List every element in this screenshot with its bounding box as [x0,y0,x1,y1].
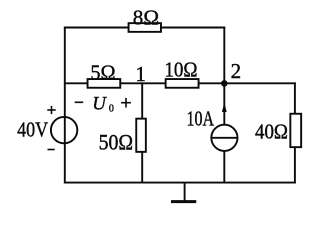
svg-text:1: 1 [135,62,146,86]
svg-text:U: U [92,94,107,114]
svg-text:0: 0 [109,104,114,115]
resistor R 5ohm [88,79,121,88]
svg-text:40V: 40V [17,117,48,141]
current source arrow head [222,102,227,112]
svg-text:2: 2 [231,59,242,83]
svg-text:10Ω: 10Ω [164,57,197,81]
svg-text:40Ω: 40Ω [255,120,288,144]
wire top horizontal [64,27,225,29]
voltage source V1 40V circle [51,117,77,143]
wire right vertical [294,82,296,183]
node 2 junction dot [221,80,228,87]
ground stem [184,183,186,201]
svg-text:10A: 10A [187,107,215,131]
resistor R 10ohm [166,79,199,88]
resistor R 8ohm [129,23,161,32]
resistor R 50ohm [136,119,146,152]
svg-text:50Ω: 50Ω [99,129,134,154]
wire left vertical [64,27,66,184]
voltage source plus sign [47,106,55,114]
wire middle horizontal [64,82,296,84]
svg-text:8Ω: 8Ω [133,5,159,29]
wire node2 vertical lower [223,151,225,184]
label U0 minus sign [75,101,84,103]
ground bar [171,200,196,203]
wire bottom horizontal [64,182,296,184]
resistor R 40ohm [290,114,301,147]
wire node2 vertical upper [223,27,225,126]
current source I1 10A circle [211,125,237,151]
wire node1 vertical [141,82,143,183]
voltage source minus sign [48,149,55,151]
svg-text:5Ω: 5Ω [90,61,115,85]
current source bar [211,137,237,139]
label U0 plus sign [121,98,131,108]
